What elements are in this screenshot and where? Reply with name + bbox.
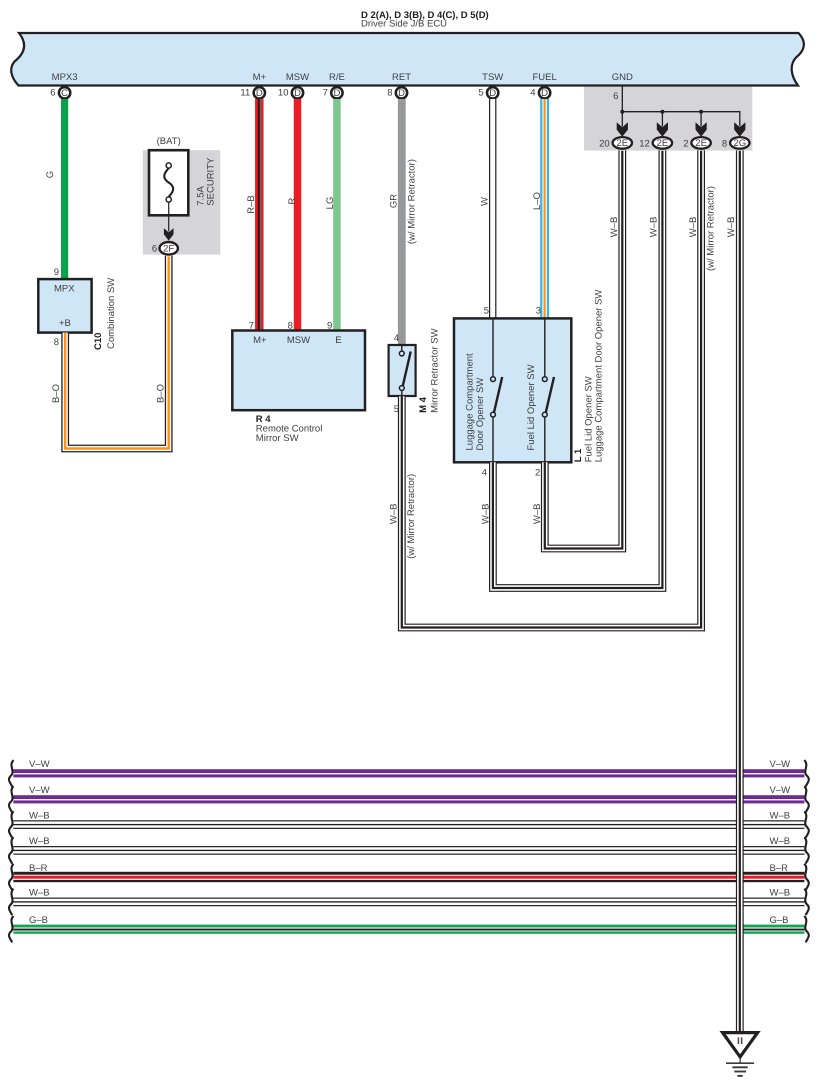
wire B-O from C10 pin8 to 2F (51, 256, 169, 449)
svg-text:7: 7 (249, 321, 254, 332)
svg-text:M+: M+ (253, 72, 267, 83)
svg-text:Luggage Compartment Door Opene: Luggage Compartment Door Opener SW (594, 290, 605, 463)
svg-text:Luggage Compartment: Luggage Compartment (464, 353, 475, 451)
svg-text:D: D (333, 88, 340, 99)
svg-text:D: D (541, 88, 548, 99)
svg-text:R–B: R–B (246, 195, 257, 213)
svg-text:9: 9 (54, 267, 59, 278)
svg-text:Mirror Retractor SW: Mirror Retractor SW (430, 328, 441, 412)
svg-text:W–B: W–B (29, 810, 50, 821)
svg-text:M+: M+ (253, 335, 267, 346)
svg-text:20: 20 (599, 138, 610, 149)
svg-text:2G: 2G (733, 138, 746, 149)
svg-text:W–B: W–B (29, 888, 50, 899)
mirror retractor SW block M4 (389, 345, 416, 396)
connector 2E pin 12 (639, 137, 672, 149)
svg-text:W–B: W–B (770, 888, 791, 899)
wire W white TSW to L1 pin5 (479, 99, 496, 319)
svg-text:6: 6 (50, 88, 55, 99)
wire GR gray RET to M4 pin4 (388, 99, 417, 345)
svg-text:Combination SW: Combination SW (106, 278, 117, 349)
wire W-B from 2G pin8 to body ground (726, 150, 740, 1032)
connector arrow into 2G pin8 (734, 122, 745, 137)
connector arrow into 2E pin2 (696, 122, 707, 137)
svg-text:G: G (45, 171, 56, 178)
wire W-B from M4 pin5 to 2E pin2 (389, 150, 717, 627)
svg-text:V–W: V–W (770, 785, 791, 796)
fuse 7.5A SECURITY box (149, 150, 188, 215)
svg-text:TSW: TSW (482, 72, 503, 83)
svg-text:W–B: W–B (688, 217, 699, 238)
svg-text:G–B: G–B (770, 915, 789, 926)
svg-text:LG: LG (325, 197, 336, 210)
svg-text:RET: RET (392, 72, 411, 83)
label M4 Mirror Retractor SW (418, 328, 441, 412)
svg-text:MSW: MSW (286, 72, 309, 83)
combination SW block C10 (38, 279, 91, 333)
svg-text:2E: 2E (657, 138, 669, 149)
title Driver Side J/B ECU (361, 10, 489, 30)
connector 2G pin 8 (722, 137, 750, 149)
connector 2E pin 2 (683, 137, 711, 149)
wire G green MPX3 to combination SW (45, 99, 68, 279)
pin 5 D (TSW) (478, 87, 498, 99)
svg-text:C: C (61, 88, 68, 99)
svg-text:MPX: MPX (54, 284, 75, 295)
pin 4 D (FUEL) (530, 87, 550, 99)
svg-text:(BAT): (BAT) (157, 136, 181, 147)
wire W-B from L1 pin4 to 2E pin12 (480, 150, 662, 588)
pin 8 D (RET) (387, 87, 407, 99)
svg-text:7: 7 (323, 88, 328, 99)
svg-text:2: 2 (535, 468, 540, 479)
svg-text:C10: C10 (93, 333, 104, 350)
ground symbol II (723, 1033, 758, 1076)
wire LG light green R/E to R4 pin9 (325, 99, 341, 331)
svg-text:10: 10 (278, 88, 289, 99)
svg-text:R: R (287, 197, 298, 204)
bus wire V-W at y=773.3 (9, 759, 809, 786)
svg-text:12: 12 (639, 138, 650, 149)
svg-text:B–O: B–O (51, 384, 62, 403)
svg-text:G–B: G–B (29, 915, 48, 926)
svg-text:W–B: W–B (770, 810, 791, 821)
luggage/fuel opener SW block L1 (454, 318, 571, 462)
svg-text:2E: 2E (616, 138, 628, 149)
bus wire G-B at y=929.2 (9, 915, 809, 942)
svg-text:M 4: M 4 (418, 396, 429, 413)
connector arrow into 2E pin12 (657, 122, 668, 137)
svg-text:GND: GND (612, 72, 633, 83)
svg-text:(w/ Mirror Retractor): (w/ Mirror Retractor) (406, 474, 417, 559)
connector arrow into 2F (164, 228, 174, 240)
svg-text:(w/ Mirror Retractor): (w/ Mirror Retractor) (706, 186, 717, 271)
fuse element symbol (164, 163, 173, 202)
pin 7 D (R/E) (323, 87, 343, 99)
svg-text:8: 8 (387, 88, 392, 99)
svg-text:2E: 2E (695, 138, 707, 149)
svg-text:9: 9 (327, 321, 332, 332)
svg-text:(w/ Mirror Retractor): (w/ Mirror Retractor) (407, 159, 418, 244)
label L1 Fuel Lid Opener SW / Luggage Compartment Door Opener SW (573, 290, 605, 463)
wire R-B red/black M+ to R4 pin7 (246, 99, 264, 331)
svg-text:D: D (256, 88, 263, 99)
pin 10 D (MSW) (278, 87, 303, 99)
svg-text:6: 6 (152, 244, 157, 255)
svg-text:8: 8 (54, 337, 59, 348)
GND drop wire from band (613, 87, 622, 112)
svg-text:8: 8 (722, 138, 727, 149)
svg-text:V–W: V–W (29, 759, 50, 770)
svg-text:SECURITY: SECURITY (206, 157, 217, 206)
svg-text:W–B: W–B (649, 217, 660, 238)
svg-text:4: 4 (482, 468, 487, 479)
svg-text:W: W (479, 197, 490, 206)
svg-text:4: 4 (530, 88, 535, 99)
svg-text:L–O: L–O (532, 192, 543, 210)
svg-text:Door Opener SW: Door Opener SW (475, 378, 486, 451)
bus wire W-B at y=850.4 (9, 836, 809, 863)
label R4 Remote Control Mirror SW (256, 414, 323, 444)
svg-text:5: 5 (478, 88, 483, 99)
remote control mirror SW block R4 (232, 331, 365, 411)
svg-text:MPX3: MPX3 (52, 72, 78, 83)
GND branch bus line (622, 112, 740, 127)
svg-text:W–B: W–B (29, 836, 50, 847)
junction dot 1 (620, 110, 624, 114)
fuse value label 7.5A SECURITY (196, 157, 217, 206)
svg-text:+B: +B (59, 318, 71, 329)
svg-text:V–W: V–W (770, 759, 791, 770)
svg-text:3: 3 (536, 305, 541, 316)
svg-text:W–B: W–B (726, 217, 737, 238)
junction dot 2 (660, 110, 664, 114)
svg-text:5: 5 (484, 305, 489, 316)
bus wire B-R at y=877.0 (9, 863, 809, 890)
svg-text:MSW: MSW (287, 335, 310, 346)
connector 2F pin 6 (152, 242, 178, 255)
svg-text:FUEL: FUEL (532, 72, 556, 83)
gray shade behind fuse (143, 150, 221, 254)
svg-text:GR: GR (388, 194, 399, 208)
wire L-O blue/orange FUEL to L1 pin3 (532, 99, 549, 319)
svg-text:W–B: W–B (389, 504, 400, 525)
wire fuse to 2F (168, 202, 170, 231)
label C10 Combination SW (93, 278, 117, 350)
bus wire W-B at y=824.6 (9, 810, 809, 837)
svg-text:D: D (398, 88, 405, 99)
connector 2E pin 20 (599, 137, 632, 149)
svg-text:2F: 2F (163, 244, 174, 255)
svg-text:Mirror SW: Mirror SW (256, 433, 299, 444)
svg-text:Fuel Lid Opener SW: Fuel Lid Opener SW (526, 364, 537, 450)
svg-text:W–B: W–B (609, 217, 620, 238)
svg-text:R/E: R/E (329, 72, 345, 83)
svg-text:D: D (294, 88, 301, 99)
svg-text:E: E (335, 335, 341, 346)
svg-text:W–B: W–B (770, 836, 791, 847)
wire W-B from L1 pin2 to 2E pin20 (532, 150, 622, 548)
wire R red MSW to R4 pin8 (287, 99, 301, 331)
junction dot 3 (699, 110, 703, 114)
svg-text:B–O: B–O (156, 384, 167, 403)
bus wire V-W at y=799.3 (9, 785, 809, 812)
svg-text:11: 11 (240, 88, 250, 99)
svg-text:2: 2 (683, 138, 688, 149)
svg-text:8: 8 (288, 321, 293, 332)
svg-text:W–B: W–B (532, 504, 543, 525)
connector arrow into 2E pin20 (617, 122, 628, 137)
svg-text:W–B: W–B (480, 504, 491, 525)
svg-text:4: 4 (394, 333, 399, 344)
svg-text:V–W: V–W (29, 785, 50, 796)
svg-text:B–R: B–R (29, 863, 48, 874)
svg-text:Driver Side J/B ECU: Driver Side J/B ECU (361, 19, 447, 30)
gray shade behind GND connectors (584, 87, 752, 151)
svg-text:6: 6 (613, 91, 618, 102)
J/B ECU bus band (11, 33, 804, 86)
pin 6 C (MPX3) (50, 87, 70, 99)
pin 11 D (M+) (240, 87, 265, 99)
bus wire W-B at y=901.9 (9, 888, 809, 915)
svg-text:D: D (489, 88, 496, 99)
svg-text:B–R: B–R (770, 863, 789, 874)
